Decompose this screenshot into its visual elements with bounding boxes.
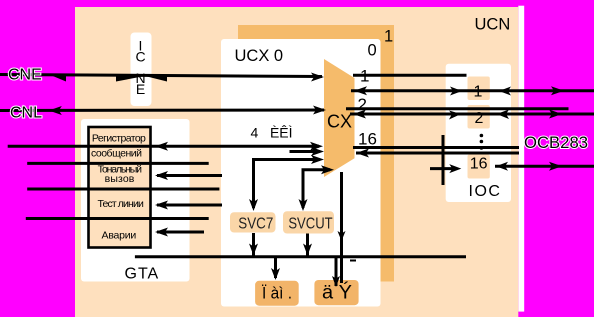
svg-text:OCB283: OCB283	[524, 133, 588, 152]
svg-text:SVCUT: SVCUT	[288, 216, 332, 233]
svg-text:GTA: GTA	[125, 266, 160, 283]
svg-text:E: E	[136, 81, 145, 97]
svg-text:CX: CX	[327, 112, 352, 132]
svg-text:4 ÈÊÌ: 4 ÈÊÌ	[251, 125, 293, 141]
svg-text:0: 0	[368, 41, 377, 59]
svg-text:UCX 0: UCX 0	[235, 47, 284, 65]
svg-text:2: 2	[358, 95, 367, 114]
svg-text:UCN: UCN	[475, 16, 511, 34]
svg-text:IOC: IOC	[469, 183, 502, 200]
svg-text:Аварии: Аварии	[102, 230, 137, 242]
svg-text:1: 1	[384, 28, 393, 46]
svg-text:сообщений: сообщений	[91, 148, 142, 160]
svg-text:ä Ý: ä Ý	[322, 283, 352, 304]
svg-text:C: C	[135, 49, 145, 65]
svg-text:2: 2	[475, 110, 484, 127]
svg-text:1: 1	[474, 83, 483, 100]
svg-text:16: 16	[470, 156, 488, 173]
svg-text:1: 1	[360, 67, 369, 86]
svg-text:Регистратор: Регистратор	[92, 133, 146, 145]
svg-text:Тест линии: Тест линии	[98, 198, 144, 210]
svg-text:Ï àì .: Ï àì .	[262, 285, 292, 303]
svg-text:CNE: CNE	[8, 67, 42, 84]
svg-text:16: 16	[358, 130, 377, 149]
svg-text:SVC7: SVC7	[238, 216, 273, 233]
svg-text:вызов: вызов	[105, 173, 135, 185]
svg-text:CNL: CNL	[10, 105, 42, 122]
